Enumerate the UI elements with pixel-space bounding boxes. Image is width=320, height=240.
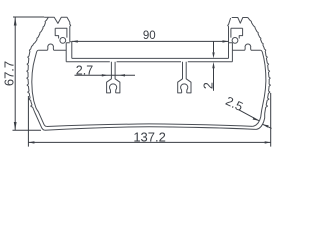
- arrow 2.5 second: [262, 124, 268, 127]
- arrow 2 up: [212, 62, 214, 68]
- arrow 2.7 left: [102, 74, 108, 76]
- dim 2 line: [213, 41, 215, 90]
- omega bump right: [245, 44, 251, 50]
- dim 90 line: [72, 40, 229, 42]
- inner plate top: [72, 57, 229, 59]
- svg-text:2: 2: [202, 82, 216, 89]
- dim 67.7 line: [14, 17, 16, 130]
- left ledge with omega bump: [38, 49, 66, 51]
- inner plate bottom: [66, 61, 232, 63]
- right ear pocket: [231, 28, 243, 38]
- arrow 137.2 left: [28, 141, 34, 143]
- dim 2.7 line: [75, 74, 136, 76]
- arrow 90 left: [72, 40, 78, 42]
- right wall inner line: [261, 50, 266, 110]
- left bottom chamfer inner: [38, 111, 47, 127]
- dim 2.5 leader: [239, 110, 272, 129]
- left hook stem and tulip: [107, 62, 120, 93]
- left wall inner line: [32, 50, 39, 111]
- left ear pocket: [55, 28, 67, 38]
- right ear left edge: [228, 18, 231, 58]
- right ear lower ledge to slot: [229, 43, 233, 62]
- right hook stem and tulip: [178, 62, 191, 93]
- arrow 90 right: [223, 40, 229, 42]
- arrow 67.7 bottom: [14, 122, 17, 130]
- dim 137.2 ext right: [270, 93, 272, 147]
- dim 137.2 ext left: [27, 96, 29, 147]
- left ear lower ledge to slot: [66, 43, 70, 62]
- arrow 2 down: [212, 52, 214, 58]
- left ear top edge with V-notch: [44, 17, 72, 58]
- arrow 137.2 right: [265, 141, 271, 143]
- bottom inner edge arc: [47, 124, 253, 127]
- right ear screw circle: [232, 38, 238, 44]
- dim 67.7 extension bottom: [13, 129, 42, 131]
- svg-text:90: 90: [143, 30, 156, 42]
- bottom outer edge arc: [45, 127, 257, 131]
- right bottom corner outer curve: [257, 114, 265, 130]
- arrow 2.7 right: [119, 74, 125, 76]
- right bottom corner inner curve: [253, 110, 262, 126]
- svg-text:67.7: 67.7: [1, 61, 16, 86]
- arrow 2.5 first: [253, 117, 259, 120]
- right ledge with omega bump: [232, 49, 260, 51]
- omega bump left: [48, 44, 54, 50]
- left hook omega cutout: [110, 84, 117, 93]
- right ear top edge with V-notch: [232, 18, 248, 24]
- dim 67.7 extension top: [13, 16, 44, 18]
- left ear screw circle: [60, 38, 66, 44]
- right outer serrated edge: [248, 17, 271, 113]
- arrow 67.7 top: [14, 17, 17, 25]
- svg-text:137.2: 137.2: [133, 129, 166, 144]
- dim 137.2 line: [28, 141, 270, 143]
- left bottom chamfer outer: [35, 112, 45, 130]
- left outer serrated edge: [27, 17, 49, 112]
- svg-text:2.7: 2.7: [76, 64, 93, 78]
- right hook omega cutout: [181, 84, 188, 93]
